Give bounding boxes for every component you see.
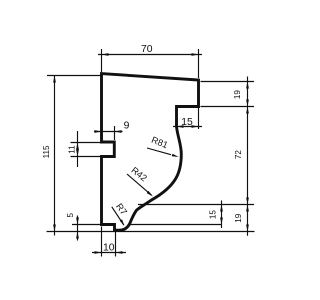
svg-text:15: 15: [181, 117, 193, 128]
svg-text:72: 72: [234, 150, 243, 160]
svg-text:115: 115: [42, 145, 51, 158]
svg-text:5: 5: [66, 213, 75, 218]
svg-text:19: 19: [233, 90, 242, 100]
svg-text:15: 15: [209, 210, 218, 220]
svg-text:11: 11: [68, 145, 77, 154]
svg-text:70: 70: [141, 44, 153, 55]
svg-text:9: 9: [124, 121, 130, 132]
svg-text:19: 19: [234, 213, 243, 223]
svg-text:10: 10: [103, 242, 115, 253]
